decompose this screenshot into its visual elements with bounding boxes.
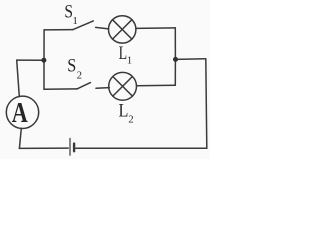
svg-text:L: L	[119, 100, 129, 121]
wire bottom left of battery	[19, 147, 68, 149]
label L1	[119, 44, 133, 67]
wire bottom right of battery	[76, 147, 207, 149]
wire L1 to right corner	[136, 27, 175, 30]
wire left vertical below ammeter	[19, 128, 21, 148]
wire top-left vertical (corner to left node)	[43, 30, 45, 60]
wire right vertical lower branch	[174, 59, 176, 85]
svg-text:2: 2	[77, 70, 82, 81]
label L2	[119, 100, 134, 125]
switch S1 blade	[73, 21, 93, 30]
ammeter A	[6, 96, 38, 128]
svg-text:1: 1	[72, 15, 78, 27]
wire S2 stub to lamp L2	[96, 87, 109, 90]
wire S1 stub to lamp L1	[96, 27, 109, 29]
label S2	[67, 55, 82, 81]
svg-text:L: L	[119, 44, 128, 64]
wire right side vertical	[206, 59, 207, 149]
wire right node to right edge	[175, 58, 205, 61]
node: left junction	[41, 58, 46, 63]
svg-text:S: S	[67, 55, 76, 76]
wire right vertical upper branch	[174, 28, 176, 60]
wire left node down to S2 corner	[44, 60, 77, 89]
wire top horizontal to S1 pivot	[44, 29, 73, 31]
wire left horizontal from node	[17, 59, 44, 61]
svg-text:1: 1	[127, 56, 132, 67]
svg-text:A: A	[12, 98, 28, 129]
wire left vertical above ammeter	[17, 60, 20, 97]
lamp L2	[109, 72, 137, 100]
battery: short thick negative plate	[73, 144, 75, 152]
svg-text:2: 2	[128, 115, 133, 126]
switch S2 blade	[77, 83, 90, 89]
lamp L1	[109, 16, 136, 43]
wire L2 to right corner	[137, 84, 176, 87]
battery: long positive plate	[69, 138, 71, 155]
label S1	[64, 1, 78, 27]
node: right junction	[173, 57, 178, 62]
